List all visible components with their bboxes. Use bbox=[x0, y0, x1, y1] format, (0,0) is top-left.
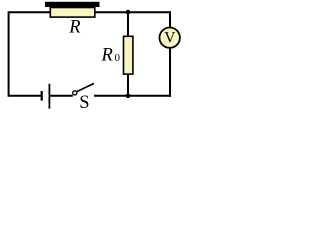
wire: right side vertical, top-right corner down to voltmeter bbox=[169, 11, 171, 28]
svg-text:S: S bbox=[79, 93, 89, 113]
svg-text:R: R bbox=[68, 18, 80, 38]
wire: left side vertical bbox=[8, 11, 10, 97]
wire: R0 branch vertical lower segment bbox=[127, 74, 129, 96]
wire: top from rheostat R right terminal through node to top-right corner bbox=[95, 11, 172, 13]
rheostat R slider bar bbox=[45, 2, 100, 7]
wire: top from left corner to rheostat R left terminal bbox=[9, 11, 51, 13]
node B: bottom junction dot bbox=[126, 94, 131, 99]
battery positive plate (long) bbox=[48, 84, 50, 109]
resistor R body bbox=[50, 8, 95, 18]
switch S blade bbox=[77, 83, 94, 91]
wire: right side vertical, voltmeter down to bottom-right corner bbox=[169, 48, 171, 97]
svg-text:V: V bbox=[164, 29, 176, 46]
wire: bottom from left corner to battery negative plate bbox=[9, 95, 41, 97]
resistor R0 body bbox=[124, 36, 133, 74]
wire: R0 branch vertical upper segment bbox=[127, 12, 129, 36]
battery negative plate (short) bbox=[41, 91, 43, 101]
wire: battery positive plate to switch pivot bbox=[49, 95, 72, 97]
switch S pivot bbox=[73, 91, 77, 95]
node A: top junction dot bbox=[126, 10, 131, 15]
svg-text:R: R bbox=[101, 45, 113, 65]
wire: switch right terminal through bottom node to bottom-right corner bbox=[94, 95, 171, 97]
voltmeter V bbox=[160, 28, 180, 48]
svg-text:0: 0 bbox=[115, 52, 121, 64]
